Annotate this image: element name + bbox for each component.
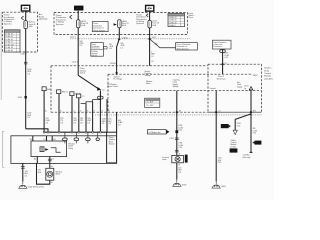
svg-text:0.8: 0.8 xyxy=(80,122,82,124)
node bus tap A xyxy=(43,131,45,133)
relay box xyxy=(31,141,67,157)
svg-text:0.35: 0.35 xyxy=(178,130,181,132)
feed wire pin label inside switch box xyxy=(80,67,87,74)
svg-text:Lamp: Lamp xyxy=(162,159,166,161)
svg-text:C2: C2 xyxy=(218,110,220,112)
svg-text:C2: C2 xyxy=(151,61,153,63)
svg-text:C410 A: C410 A xyxy=(121,36,128,39)
text block window motor module xyxy=(109,136,116,146)
svg-text:(w/o AJ7): (w/o AJ7) xyxy=(264,77,273,80)
svg-text:Systems: Systems xyxy=(4,22,12,25)
wire from data box to BCM xyxy=(222,49,224,74)
svg-text:Switch: Switch xyxy=(80,72,85,75)
svg-text:A6: A6 xyxy=(179,109,181,112)
dotted connector line C410 xyxy=(70,38,190,40)
svg-text:MED 11: MED 11 xyxy=(62,92,68,94)
svg-text:Lp: Lp xyxy=(244,88,246,90)
svg-text:C305: C305 xyxy=(169,138,173,140)
svg-text:Cir Bkr 46: Cir Bkr 46 xyxy=(169,21,177,24)
svg-text:A2: A2 xyxy=(34,157,36,160)
socket pill connectors xyxy=(63,138,68,141)
battery B1 (top left) xyxy=(21,5,29,11)
svg-text:(Ref only): (Ref only) xyxy=(243,157,251,159)
door jamb black bar xyxy=(185,155,188,163)
inline connector on motor wire xyxy=(48,159,52,161)
Global text + black tag xyxy=(231,140,237,149)
wire switch output F xyxy=(92,102,94,132)
node bus tap G xyxy=(100,131,102,133)
svg-text:B10: B10 xyxy=(253,110,256,112)
lamp ground wire xyxy=(176,163,178,180)
gray bracket artifact xyxy=(3,131,4,167)
svg-text:B3: B3 xyxy=(53,139,55,141)
window motor xyxy=(46,168,54,180)
note box B with oval connector xyxy=(91,43,114,57)
note box: Power Distribution Schematics in Wiring Systems xyxy=(92,22,108,32)
bottom dashed edge of switch boxes xyxy=(51,111,262,113)
svg-text:Wiring Systems: Wiring Systems xyxy=(177,47,189,50)
svg-text:Control: Control xyxy=(264,72,271,75)
svg-text:S160: S160 xyxy=(18,97,22,99)
branch wire to note box C xyxy=(150,39,176,48)
fuse 37 xyxy=(118,20,122,28)
svg-text:Cir Bkr 34: Cir Bkr 34 xyxy=(5,35,13,38)
relay contact step xyxy=(51,148,61,152)
dashed top edge of switch assembly box xyxy=(51,65,208,67)
svg-text:C1: C1 xyxy=(102,90,104,92)
fuse table legend (top right area) xyxy=(168,14,185,27)
outer solid box (door module) xyxy=(11,136,117,164)
svg-text:D1: D1 xyxy=(44,139,46,141)
node battery feed tap xyxy=(47,131,49,133)
svg-text:Relay: Relay xyxy=(68,148,73,150)
switch box pin texts xyxy=(114,75,123,80)
small legend table (connector key) xyxy=(145,98,160,107)
svg-text:(TCM): (TCM) xyxy=(231,146,236,148)
svg-text:C410 C: C410 C xyxy=(70,37,77,39)
inner dashed box top (window switch) xyxy=(108,73,251,75)
fuse 58 xyxy=(77,20,81,28)
text block left of B2 wire xyxy=(136,13,147,25)
wire label 340 ORN xyxy=(120,43,125,49)
Window Motor Relay text xyxy=(68,143,75,149)
internal not-used triangle xyxy=(249,87,253,90)
node lamp supply pin A6 xyxy=(176,111,178,113)
ground symbol G203 xyxy=(212,181,221,188)
svg-text:B+ Voltage: B+ Voltage xyxy=(114,78,123,81)
bus wire with nodes xyxy=(44,131,107,133)
Aux Battery (optional) text right of box xyxy=(39,13,48,20)
svg-text:Cir Bkr 68: Cir Bkr 68 xyxy=(5,49,13,52)
courtesy lamp xyxy=(172,155,184,162)
data link note box xyxy=(212,40,231,49)
svg-text:Serial Data: Serial Data xyxy=(217,77,226,80)
svg-text:0.35: 0.35 xyxy=(253,133,256,135)
svg-text:G302 (LH Kick Pnl): G302 (LH Kick Pnl) xyxy=(28,186,44,188)
fuse 18 xyxy=(148,20,152,28)
svg-text:0.8: 0.8 xyxy=(87,122,89,124)
node bus tap D xyxy=(78,131,80,133)
fuse: Battery Fuse 36 xyxy=(24,21,28,29)
svg-text:F: F xyxy=(94,110,95,112)
diagonal feed to switch common xyxy=(78,75,99,89)
pill connector under data box xyxy=(220,50,226,53)
relay coil xyxy=(40,147,44,152)
wire switch output A xyxy=(43,91,45,132)
wire label 340 ORN below C410 xyxy=(79,41,84,47)
svg-text:Cir Bkr 36: Cir Bkr 36 xyxy=(5,38,13,41)
svg-text:0.35: 0.35 xyxy=(218,162,221,164)
svg-text:Cir Bkr LGT: Cir Bkr LGT xyxy=(5,43,15,46)
svg-text:Voltage: Voltage xyxy=(145,74,151,77)
dotted connector line bottom xyxy=(95,114,262,116)
wire from fuse 37: jog at dotted line xyxy=(117,28,120,73)
svg-text:3.0: 3.0 xyxy=(79,45,81,47)
scan edge artifact left xyxy=(0,12,2,100)
pin labels above dashed line xyxy=(45,109,110,112)
relay output wires xyxy=(36,157,38,164)
svg-text:Ground: Ground xyxy=(210,88,216,90)
node at BCM top crossing xyxy=(221,63,224,66)
svg-text:0.35: 0.35 xyxy=(178,147,181,149)
svg-text:Motor: Motor xyxy=(56,173,61,176)
svg-text:Cir Bkr 57: Cir Bkr 57 xyxy=(5,41,13,44)
svg-text:3.0: 3.0 xyxy=(27,117,29,119)
text block inside left of middle box xyxy=(56,14,67,26)
ground wire from box xyxy=(22,163,24,181)
C305 inline connector xyxy=(175,138,179,140)
svg-text:C510 1: C510 1 xyxy=(72,61,78,63)
wire switch output D xyxy=(78,98,80,132)
wire switch output B xyxy=(58,94,60,132)
destination tag black box pointing left xyxy=(255,141,262,145)
right side: BCM ground wire labels xyxy=(218,158,222,164)
svg-text:0.8: 0.8 xyxy=(109,48,111,50)
wire label 1040 RED on left wire xyxy=(27,69,31,75)
BCM dashed box xyxy=(208,64,262,112)
ground symbol G302 xyxy=(18,182,27,189)
svg-text:(cell 10): (cell 10) xyxy=(92,55,98,57)
connector chevron left of fuse 58 xyxy=(70,15,72,19)
svg-text:G303: G303 xyxy=(182,185,187,187)
inner dashed box left edge xyxy=(107,74,109,112)
switch assembly left edge xyxy=(50,66,52,112)
wire labels on lamp wire xyxy=(178,125,183,131)
svg-text:Keyless: Keyless xyxy=(264,68,271,70)
connector chevron on B1 wire xyxy=(21,16,23,20)
svg-text:0.8: 0.8 xyxy=(60,122,62,124)
note box C xyxy=(176,43,198,51)
arrow pointing to fuse 37 xyxy=(114,23,117,26)
svg-text:2.0: 2.0 xyxy=(151,56,153,58)
svg-text:Supply: Supply xyxy=(237,86,242,88)
middle dashed box: fuse block assembly xyxy=(54,13,187,35)
svg-text:Module: Module xyxy=(109,144,115,146)
svg-text:0.8: 0.8 xyxy=(46,122,48,124)
wire from fuse 58 down through boxes xyxy=(77,28,79,75)
pill stubs xyxy=(65,132,98,143)
wire below fuse 18 xyxy=(149,28,151,66)
svg-text:G203: G203 xyxy=(221,186,226,188)
ground symbol G303 xyxy=(172,180,181,187)
switch common staircase xyxy=(81,90,101,103)
Fuse Block - Rear text xyxy=(189,13,196,19)
svg-text:Module: Module xyxy=(264,76,272,78)
battery feed elbow joining bus xyxy=(26,129,48,132)
node bus tap B xyxy=(58,131,60,133)
svg-text:0.8: 0.8 xyxy=(108,123,110,125)
svg-text:Cir Bkr 5: Cir Bkr 5 xyxy=(169,24,176,27)
svg-text:Cir Bkr 35: Cir Bkr 35 xyxy=(169,19,177,22)
svg-text:Motor: Motor xyxy=(146,82,151,85)
svg-text:0.8: 0.8 xyxy=(102,123,104,125)
svg-text:Cir Bkr 64: Cir Bkr 64 xyxy=(5,46,13,49)
courtesy lamp feed wire xyxy=(176,91,178,156)
svg-text:C1 = BLK: C1 = BLK xyxy=(146,102,154,104)
wire from B1 down xyxy=(25,11,27,21)
node bus tap F xyxy=(92,131,94,133)
wire switch output H xyxy=(106,99,108,132)
svg-text:Cir Bkr 18: Cir Bkr 18 xyxy=(169,16,177,19)
node bus tap C xyxy=(71,131,73,133)
svg-text:Cir Bkr 10: Cir Bkr 10 xyxy=(5,33,13,36)
node BCM pin B10 xyxy=(250,111,252,113)
svg-text:2.0: 2.0 xyxy=(25,175,27,177)
relay pin stubs xyxy=(32,136,34,141)
wire label below splice S160 xyxy=(27,113,31,119)
svg-text:Motor Control: Motor Control xyxy=(108,85,119,88)
svg-text:Rear: Rear xyxy=(189,16,194,19)
wire switch output C xyxy=(71,96,73,132)
battery B2 (top, x150) xyxy=(146,5,154,11)
svg-text:0.8: 0.8 xyxy=(178,172,180,174)
svg-text:C410 B: C410 B xyxy=(20,54,27,56)
motor return loop xyxy=(37,163,50,184)
destination tag black box pointing right xyxy=(221,124,229,128)
arrow into switch box xyxy=(115,72,118,75)
wire below fuse xyxy=(25,29,27,129)
svg-text:C4: C4 xyxy=(51,159,53,161)
Keyless Entry text right of BCM xyxy=(264,68,273,81)
node bus tap E xyxy=(85,131,87,133)
wire switch output E xyxy=(85,104,87,133)
relay arrow xyxy=(45,148,48,151)
svg-text:Schematics: Schematics xyxy=(213,45,222,48)
svg-text:S110: S110 xyxy=(152,37,156,39)
Battery Positive Voltage pin text xyxy=(145,70,151,77)
BCM pin texts xyxy=(217,76,226,80)
fuse table legend (top left) xyxy=(4,30,20,52)
switch contact boxes xyxy=(57,90,61,94)
svg-text:5.0: 5.0 xyxy=(27,73,29,75)
svg-text:0.35: 0.35 xyxy=(237,125,240,127)
svg-text:Wiring Systems: Wiring Systems xyxy=(93,29,105,32)
svg-text:(optional): (optional) xyxy=(39,18,48,21)
wire end stub C307 xyxy=(250,151,253,153)
wire labels below connector line xyxy=(46,118,51,124)
svg-text:C410 A: C410 A xyxy=(110,62,117,65)
BCM not used wire xyxy=(250,90,252,152)
wire from AUX down xyxy=(77,11,79,20)
destination tag box LR window xyxy=(148,130,179,134)
BCM ground wire xyxy=(215,91,217,182)
svg-text:1.0: 1.0 xyxy=(120,47,122,49)
node BCM ground pin C2 xyxy=(215,111,217,113)
svg-text:0.35: 0.35 xyxy=(224,57,227,59)
svg-text:C 2: C 2 xyxy=(82,96,85,98)
wire switch output G xyxy=(99,90,101,132)
splice S160 on left wire xyxy=(25,96,27,98)
wire from B2 xyxy=(149,11,151,20)
dashed box: underhood fuse block (top left) xyxy=(3,12,38,52)
svg-text:Voltage: Voltage xyxy=(173,85,179,88)
svg-text:LR Window Sw: LR Window Sw xyxy=(148,132,161,134)
svg-text:E5: E5 xyxy=(30,139,32,141)
inner dashed line of BCM section xyxy=(120,90,262,92)
svg-text:Systems: Systems xyxy=(136,22,144,25)
connector chevron on B2 wire xyxy=(146,14,148,17)
text Power Distribution Schematics in Wiring Systems xyxy=(4,14,15,26)
svg-text:0.8: 0.8 xyxy=(118,124,120,126)
svg-text:AUX: AUX xyxy=(75,6,81,10)
splice S110 xyxy=(148,38,150,40)
svg-text:C2 = GRY: C2 = GRY xyxy=(146,105,155,107)
AUX tag (black box, top middle) xyxy=(74,6,83,11)
U loop wire to right xyxy=(107,132,117,163)
wire labels x251 xyxy=(253,128,258,134)
svg-text:Systems: Systems xyxy=(56,23,64,26)
branch diagonal to open triangle xyxy=(235,114,251,130)
svg-text:0.8: 0.8 xyxy=(73,122,75,124)
